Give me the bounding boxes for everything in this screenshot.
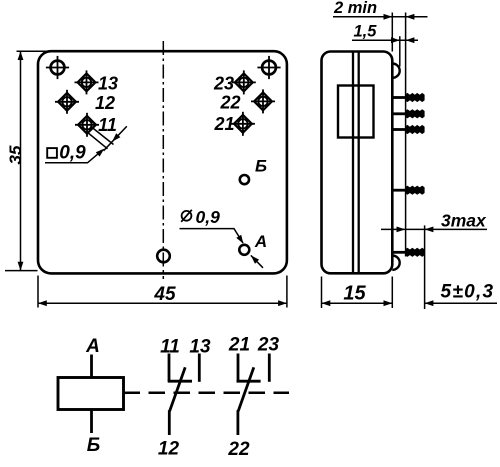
svg-text:3max: 3max <box>441 211 487 231</box>
mounting hole top-right <box>257 56 280 79</box>
pin 22 <box>251 89 275 113</box>
coil box <box>58 378 124 410</box>
side view body outline <box>322 52 393 274</box>
dimension 45 left extension line <box>37 276 39 308</box>
mounting hole top-left <box>46 56 69 79</box>
pin 12 <box>55 90 79 114</box>
svg-text:5±0,3: 5±0,3 <box>441 282 495 303</box>
side view pin row 5 <box>392 248 424 257</box>
svg-text:А: А <box>85 336 100 357</box>
pin 11 square side extension line lower <box>87 132 108 149</box>
svg-text:0,9: 0,9 <box>59 142 86 163</box>
svg-text:22: 22 <box>219 93 240 113</box>
dimension 15 left extension line <box>321 277 323 309</box>
svg-text:21: 21 <box>213 114 234 134</box>
mechanical linkage dashed line <box>124 392 290 395</box>
svg-text:12: 12 <box>158 439 180 460</box>
svg-text:45: 45 <box>153 284 176 305</box>
svg-text:23: 23 <box>257 335 280 356</box>
diameter 0,9 label <box>181 210 192 222</box>
side view pin row 4 <box>392 186 424 195</box>
leader line from square 0,9 label <box>45 150 103 163</box>
extension line right edge above body <box>391 13 393 52</box>
svg-text:13: 13 <box>98 74 118 94</box>
dimension 2 min line and arrows <box>333 16 428 18</box>
dimension 35 top extension line <box>17 50 53 52</box>
pin 21 <box>231 112 255 136</box>
svg-text:0,9: 0,9 <box>196 207 221 227</box>
svg-text:12: 12 <box>95 93 115 113</box>
dimension 1,5 line and arrows <box>352 39 418 41</box>
dimension 45 right extension line <box>286 276 288 308</box>
coil terminal A lead wire <box>90 355 93 378</box>
dimension 45 line with arrows <box>38 302 287 304</box>
leader line from diameter label to hole A <box>180 229 244 243</box>
pin 13 <box>75 70 99 94</box>
dimension 35 line with arrows <box>20 51 22 270</box>
extension line pin end <box>424 225 426 309</box>
coil terminal B lead wire <box>90 410 93 434</box>
svg-text:35: 35 <box>6 145 25 164</box>
contact terminal 23 wire <box>268 354 271 382</box>
contact terminal 12 wire <box>168 410 171 435</box>
svg-text:1,5: 1,5 <box>354 23 378 41</box>
extension line boss tip <box>399 36 401 66</box>
extension line pin root (long) <box>405 13 407 257</box>
center hole circle <box>157 250 170 263</box>
contact terminal 13 wire <box>198 354 201 382</box>
svg-text:Б: Б <box>255 157 267 176</box>
side view pin row 3 <box>392 125 424 134</box>
dimension 3max line and arrows <box>381 228 487 230</box>
svg-text:Б: Б <box>87 435 100 456</box>
svg-text:А: А <box>254 232 267 251</box>
side view top locating boss <box>392 64 399 78</box>
side view pin row 2 <box>392 109 424 118</box>
svg-text:11: 11 <box>98 115 117 135</box>
contact blade group 1 <box>170 367 186 411</box>
dimension 35 bottom extension line <box>5 270 38 272</box>
svg-text:15: 15 <box>343 283 366 305</box>
contact foot bar group 2 <box>237 380 261 383</box>
square dimension line with arrows <box>104 126 127 151</box>
svg-text:13: 13 <box>189 337 211 358</box>
dimension 15 line with arrows <box>322 302 393 304</box>
pin 23 <box>232 70 256 94</box>
contact terminal 11 wire <box>168 354 171 382</box>
front view body outline <box>38 51 287 273</box>
side view marking plate rectangle <box>338 86 374 138</box>
side view seam line left <box>352 52 354 274</box>
svg-text:21: 21 <box>228 335 250 356</box>
pin 11 square side extension line upper <box>92 127 114 145</box>
svg-text:23: 23 <box>213 74 234 94</box>
side view pin row 1 <box>392 93 424 102</box>
contact terminal 21 wire <box>237 354 240 382</box>
contact blade group 2 <box>238 367 254 411</box>
contact foot bar group 1 <box>168 380 192 383</box>
hole A small circle <box>239 245 249 255</box>
side view seam line right <box>358 52 360 274</box>
pin 11 <box>75 113 99 137</box>
contact terminal 22 wire <box>236 410 239 435</box>
arrow pointing to hole A from lower right <box>251 255 263 267</box>
hole B small circle <box>240 175 249 184</box>
dimension 5 plus-minus 0,3 line and arrow <box>425 302 497 304</box>
front view vertical centerline <box>162 41 164 279</box>
dimension 15 right extension line <box>391 277 393 309</box>
svg-text:2 min: 2 min <box>333 0 377 17</box>
svg-text:11: 11 <box>160 337 180 358</box>
label square 0,9 <box>47 148 57 158</box>
svg-text:22: 22 <box>227 439 250 460</box>
side view bottom locating boss <box>392 256 399 270</box>
